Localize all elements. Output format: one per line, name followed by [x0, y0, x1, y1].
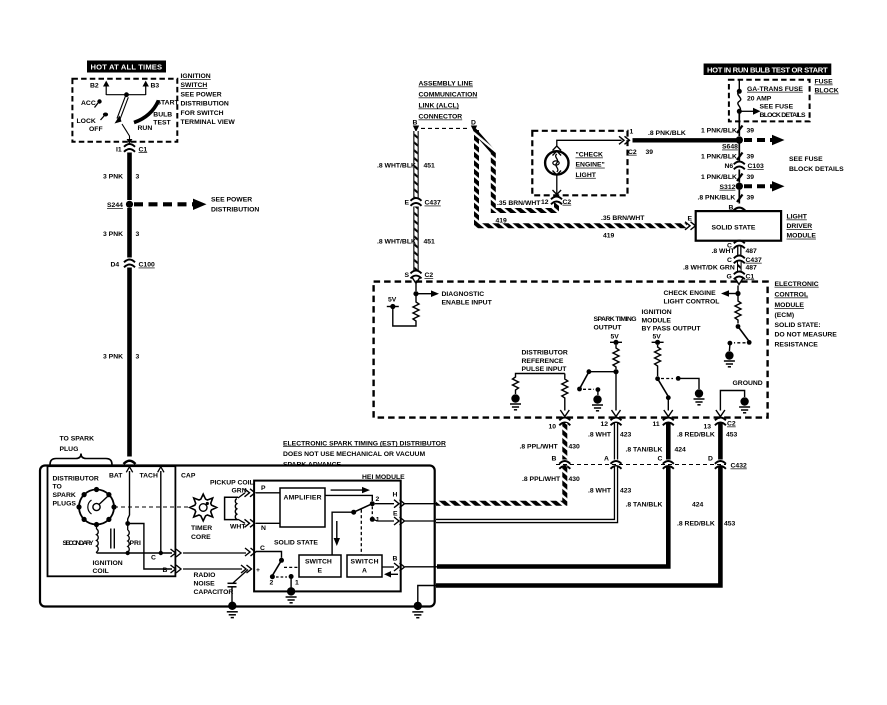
svg-text:39: 39 — [646, 149, 654, 156]
svg-text:B3: B3 — [151, 83, 160, 90]
svg-text:B: B — [413, 120, 418, 127]
ground distributor housing — [412, 602, 423, 618]
terminal arrow into ECM light control — [735, 279, 743, 285]
arrow annotation down — [334, 521, 340, 546]
svg-text:BLOCK: BLOCK — [815, 88, 839, 95]
node ignition feed — [124, 92, 129, 97]
svg-text:CAP: CAP — [181, 473, 196, 480]
wire .8 WHT 487 — [712, 247, 758, 257]
fuse GA-TRANS 20 AMP — [737, 81, 804, 114]
svg-text:.8 WHT: .8 WHT — [588, 487, 612, 494]
svg-text:C2: C2 — [727, 421, 736, 428]
svg-text:P: P — [261, 485, 266, 492]
terminal 5V bypass — [652, 333, 664, 345]
node spark timing junction — [613, 369, 618, 374]
electronic control module box — [374, 282, 768, 418]
svg-text:.8 PNK/BLK: .8 PNK/BLK — [698, 195, 736, 202]
svg-text:423: 423 — [620, 487, 632, 494]
light driver module box — [696, 211, 781, 241]
svg-text:S: S — [405, 272, 410, 279]
svg-text:12: 12 — [541, 199, 549, 206]
wire .8 PPL/WHT 430 upper — [520, 423, 581, 460]
ground light control switch — [724, 345, 735, 367]
svg-text:5V: 5V — [388, 297, 397, 304]
svg-text:.8 WHT: .8 WHT — [712, 248, 736, 255]
switch spark timing — [577, 369, 613, 392]
svg-text:C1: C1 — [139, 146, 148, 153]
switch bypass — [655, 376, 680, 400]
label 3 PNK 3 — [103, 354, 140, 361]
svg-text:NOISE: NOISE — [194, 581, 216, 588]
svg-text:PRI: PRI — [130, 540, 141, 547]
svg-text:ENGINE": ENGINE" — [576, 162, 605, 169]
svg-text:3 PNK: 3 PNK — [103, 174, 123, 181]
label SEE POWER DISTRIBUTION — [211, 196, 259, 213]
connector C100 terminal D4 — [111, 260, 155, 269]
label 3 PNK 3 — [103, 174, 140, 181]
svg-text:10: 10 — [549, 423, 557, 430]
connector C2 terminal 12 — [541, 197, 571, 206]
svg-text:BLOCK DETAILS: BLOCK DETAILS — [789, 166, 844, 173]
svg-text:487: 487 — [746, 248, 758, 255]
svg-text:3: 3 — [136, 174, 140, 181]
svg-text:TO SPARK: TO SPARK — [60, 436, 95, 443]
svg-text:S312: S312 — [720, 184, 736, 191]
svg-text:BY PASS OUTPUT: BY PASS OUTPUT — [642, 326, 702, 333]
label EST distributor heading — [283, 440, 446, 468]
label .8 WHT/BLK 451 — [377, 238, 435, 245]
terminal C of HEI — [245, 545, 282, 558]
svg-text:DISTRIBUTION: DISTRIBUTION — [181, 101, 229, 108]
svg-text:SPARK TIMING: SPARK TIMING — [594, 316, 637, 323]
svg-text:DISTRIBUTOR: DISTRIBUTOR — [522, 350, 568, 357]
connector C432 terminal C — [658, 456, 674, 469]
wire switch pivot to switch E box — [332, 512, 354, 555]
connector C432 terminal A — [604, 456, 622, 469]
HEI module box — [254, 481, 401, 592]
ground ECM internal — [720, 391, 750, 413]
connector C2 terminal 11 — [653, 418, 674, 429]
wire .8 WHT/DK GRN 487 — [683, 262, 757, 272]
svg-text:D: D — [708, 456, 713, 463]
svg-text:ELECTRONIC: ELECTRONIC — [775, 281, 819, 288]
svg-text:3 PNK: 3 PNK — [103, 354, 123, 361]
svg-text:.8 PNK/BLK: .8 PNK/BLK — [648, 130, 686, 137]
svg-text:.8 PPL/WHT: .8 PPL/WHT — [522, 476, 561, 483]
svg-text:PULSE INPUT: PULSE INPUT — [522, 366, 568, 373]
svg-text:39: 39 — [747, 174, 755, 181]
label .8 WHT/BLK 451 — [377, 162, 435, 169]
wire spark timing output to 12 — [612, 374, 621, 417]
svg-text:GA-TRANS FUSE: GA-TRANS FUSE — [747, 86, 803, 93]
svg-text:OFF: OFF — [89, 126, 103, 133]
wire .8 PNK/BLK 39 S312 to LDM — [698, 190, 755, 204]
switch HEI driver — [270, 558, 300, 587]
svg-text:G: G — [727, 273, 732, 280]
svg-text:A: A — [362, 568, 367, 575]
label TO SPARK PLUG — [60, 436, 95, 453]
svg-text:SEE FUSE: SEE FUSE — [789, 156, 823, 163]
resistor bypass — [655, 345, 661, 376]
svg-text:.8 RED/BLK: .8 RED/BLK — [677, 432, 715, 439]
ground spark timing switch — [592, 391, 603, 411]
svg-text:MODULE: MODULE — [787, 233, 817, 240]
banner HOT IN RUN BULB TEST OR START — [704, 64, 832, 76]
wire TACH down to coil negative — [160, 471, 162, 553]
svg-text:REFERENCE: REFERENCE — [522, 358, 564, 365]
svg-text:E: E — [393, 511, 398, 518]
label SEE FUSE BLOCK DETAILS right — [789, 156, 844, 173]
svg-text:SEE POWER: SEE POWER — [211, 196, 252, 203]
svg-text:SPARK: SPARK — [53, 492, 76, 499]
svg-text:DRIVER: DRIVER — [787, 223, 813, 230]
terminal arrow into ECM diagnostic input — [412, 278, 420, 284]
svg-text:424: 424 — [692, 502, 704, 509]
svg-text:S244: S244 — [107, 202, 123, 209]
svg-text:.8 TAN/BLK: .8 TAN/BLK — [626, 502, 663, 509]
terminal B — [382, 555, 437, 571]
svg-text:IGNITION: IGNITION — [642, 309, 672, 316]
svg-text:C1: C1 — [746, 273, 755, 280]
coil core — [111, 529, 115, 549]
svg-text:START: START — [157, 100, 180, 107]
svg-text:.8 RED/BLK: .8 RED/BLK — [677, 521, 715, 528]
connector C432 row line — [556, 464, 726, 466]
svg-text:419: 419 — [496, 217, 508, 224]
connector terminal B of LDM — [729, 204, 746, 211]
terminal E of LDM — [685, 215, 696, 230]
svg-text:.8 WHT/BLK: .8 WHT/BLK — [377, 162, 416, 169]
svg-text:SOLID STATE:: SOLID STATE: — [775, 322, 821, 329]
ignition switch LOCK contact — [77, 113, 109, 126]
svg-text:1 PNK/BLK: 1 PNK/BLK — [701, 153, 737, 160]
connector C2 terminal 10 — [549, 418, 571, 431]
svg-text:A: A — [604, 456, 609, 463]
arrow annotation left — [384, 571, 398, 577]
svg-text:TO: TO — [53, 484, 62, 491]
svg-text:I1: I1 — [116, 146, 122, 153]
svg-text:DOES NOT USE MECHANICAL OR VAC: DOES NOT USE MECHANICAL OR VACUUM — [283, 451, 425, 458]
ground bypass contact — [680, 378, 704, 404]
label ECM right column — [775, 281, 838, 349]
svg-text:487: 487 — [746, 264, 758, 271]
timer core — [190, 494, 217, 541]
connector C437 terminal E — [405, 198, 441, 207]
switch HEI output — [351, 496, 380, 523]
svg-text:SWITCH: SWITCH — [305, 559, 332, 566]
svg-text:.8 WHT/BLK: .8 WHT/BLK — [377, 238, 416, 245]
svg-text:IGNITION: IGNITION — [181, 73, 211, 80]
connector C2 terminal 13 — [704, 418, 736, 431]
label FUSE BLOCK — [815, 79, 839, 95]
wire 3 PNK ignition feed upper — [127, 153, 132, 201]
svg-text:SEE FUSE: SEE FUSE — [760, 103, 794, 110]
wire .8 WHT 423 lower to HEI E — [436, 467, 632, 522]
svg-text:C432: C432 — [731, 463, 747, 470]
wire 3 PNK ignition feed lower — [127, 268, 132, 457]
terminal B of ALCL — [413, 120, 420, 133]
svg-text:C: C — [658, 456, 663, 463]
terminal D of ALCL — [471, 120, 477, 133]
svg-text:39: 39 — [747, 153, 755, 160]
svg-text:SWITCH: SWITCH — [351, 559, 379, 566]
check engine light box — [532, 131, 627, 196]
connector C437 terminal C — [727, 256, 762, 264]
svg-text:1 PNK/BLK: 1 PNK/BLK — [701, 127, 737, 134]
svg-text:D4: D4 — [111, 262, 120, 269]
svg-text:LINK (ALCL): LINK (ALCL) — [419, 103, 459, 110]
wire .8 RED/BLK 453 upper — [677, 423, 738, 460]
terminal TACH — [140, 467, 165, 480]
switch A box — [347, 555, 382, 577]
svg-text:DIAGNOSTIC: DIAGNOSTIC — [442, 291, 485, 298]
svg-text:COIL: COIL — [93, 568, 109, 575]
svg-text:ASSEMBLY LINE: ASSEMBLY LINE — [419, 81, 474, 88]
wire coil negative bus — [97, 552, 173, 554]
svg-text:MODULE: MODULE — [642, 317, 672, 324]
svg-text:13: 13 — [704, 423, 712, 430]
svg-text:419: 419 — [603, 233, 615, 240]
svg-text:453: 453 — [726, 432, 738, 439]
svg-text:MODULE: MODULE — [775, 302, 805, 309]
svg-text:RADIO: RADIO — [194, 572, 216, 579]
wire B2-B3 bus — [106, 94, 146, 96]
svg-text:SOLID STATE: SOLID STATE — [274, 540, 318, 547]
svg-text:SECONDARY: SECONDARY — [63, 540, 94, 547]
wire .8 WHT/BLK 451 upper — [413, 131, 418, 199]
svg-text:430: 430 — [569, 443, 581, 450]
svg-text:E: E — [688, 215, 693, 222]
arrow see fuse block details — [739, 103, 806, 119]
resistor spark timing — [613, 345, 619, 369]
fuse block box — [729, 80, 810, 122]
node check engine light control junction — [735, 286, 740, 297]
svg-text:BAT: BAT — [109, 472, 123, 479]
svg-text:SOLID STATE: SOLID STATE — [712, 224, 756, 231]
terminal B+ of coil — [163, 565, 182, 574]
svg-text:ENABLE INPUT: ENABLE INPUT — [442, 300, 493, 307]
resistor diagnostic pull-up — [393, 296, 419, 326]
svg-text:LOCK: LOCK — [77, 118, 96, 125]
svg-text:HOT AT ALL TIMES: HOT AT ALL TIMES — [91, 63, 163, 72]
terminal H — [375, 492, 436, 508]
svg-text:.8 TAN/BLK: .8 TAN/BLK — [626, 447, 663, 454]
svg-text:2: 2 — [376, 496, 380, 503]
svg-text:DO NOT MEASURE: DO NOT MEASURE — [775, 332, 838, 339]
ground radio noise capacitor — [227, 602, 238, 618]
svg-text:3 PNK: 3 PNK — [103, 231, 123, 238]
svg-text:WHT: WHT — [230, 524, 246, 531]
wire dashed link B to D — [421, 127, 469, 129]
wire .8 TAN/BLK 424 lower to HEI B — [437, 467, 704, 567]
terminal 5V spark timing — [610, 333, 622, 345]
svg-text:DISTRIBUTOR: DISTRIBUTOR — [53, 475, 99, 482]
wire BAT to B+ terminal — [128, 524, 172, 570]
wire BAT feed down — [128, 471, 130, 522]
label .35 BRN/WHT 419 — [601, 215, 645, 240]
ignition switch ACC contact — [81, 99, 102, 107]
label IGNITION MODULE BY PASS OUTPUT — [642, 309, 702, 333]
wire .8 PPL/WHT 430 lower to HEI H — [436, 467, 580, 504]
ignition coil inner box — [48, 466, 176, 576]
svg-text:C: C — [151, 555, 156, 562]
svg-text:5V: 5V — [653, 333, 662, 340]
wire RED/BLK to distributor housing ground — [418, 586, 436, 604]
wire 1 PNK/BLK 39 C103 to S312 — [701, 170, 754, 183]
svg-text:DISTRIBUTION: DISTRIBUTION — [211, 207, 259, 214]
label LIGHT DRIVER MODULE — [787, 214, 817, 240]
wire BRN/WHT from D to light driver module — [477, 130, 688, 226]
connector C432 terminal D — [708, 456, 747, 470]
svg-text:1: 1 — [295, 580, 299, 587]
terminal + of HEI — [241, 565, 260, 574]
connector C1 terminal I1 — [116, 144, 147, 153]
svg-text:C103: C103 — [748, 163, 764, 170]
svg-text:C2: C2 — [425, 272, 434, 279]
wire .8 WHT/BLK 451 lower — [413, 207, 418, 271]
svg-text:COMMUNICATION: COMMUNICATION — [419, 92, 478, 99]
wire pickup to N — [238, 519, 280, 532]
terminal arrow to 13 — [716, 410, 725, 417]
svg-text:IGNITION: IGNITION — [93, 560, 123, 567]
svg-text:GROUND: GROUND — [733, 380, 763, 387]
svg-text:.35 BRN/WHT: .35 BRN/WHT — [601, 215, 645, 222]
svg-text:39: 39 — [747, 127, 755, 134]
svg-text:12: 12 — [601, 421, 609, 428]
svg-text:11: 11 — [653, 421, 660, 428]
wire dashed lever to switch A — [360, 510, 362, 556]
label BULB TEST — [153, 111, 172, 126]
svg-text:H: H — [393, 492, 398, 499]
svg-text:424: 424 — [675, 447, 687, 454]
svg-text:LIGHT: LIGHT — [576, 172, 597, 179]
brace spark plug leads — [50, 454, 112, 465]
svg-text:.8 WHT: .8 WHT — [588, 432, 612, 439]
svg-text:N6: N6 — [725, 163, 734, 170]
svg-text:C2: C2 — [628, 149, 637, 156]
svg-text:PLUG: PLUG — [60, 446, 79, 453]
wire dashed arrow from S312 — [744, 181, 785, 191]
wire dashed arrow see power distribution — [134, 199, 207, 210]
label DISTRIBUTOR REFERENCE PULSE INPUT — [522, 350, 568, 374]
svg-text:.35 BRN/WHT: .35 BRN/WHT — [497, 200, 541, 207]
wire dashed cap to timer core — [114, 506, 190, 508]
capacitor radio noise — [194, 570, 249, 603]
ignition switch terminal B2 — [90, 81, 109, 95]
ignition switch terminal B3 — [143, 81, 160, 95]
label IGNITION COIL — [93, 560, 123, 575]
distributor cap — [76, 487, 116, 527]
svg-text:FUSE: FUSE — [815, 79, 834, 86]
svg-text:AMPLIFIER: AMPLIFIER — [284, 495, 322, 502]
svg-text:430: 430 — [569, 476, 581, 483]
distributor outer box — [40, 466, 435, 607]
connector C2 terminal S — [405, 271, 434, 280]
svg-text:B: B — [163, 567, 168, 574]
svg-text:3: 3 — [136, 231, 140, 238]
ground distributor reference — [510, 394, 521, 410]
svg-text:5V: 5V — [611, 333, 620, 340]
svg-text:RESISTANCE: RESISTANCE — [775, 341, 819, 348]
svg-text:BLOCK DETAILS: BLOCK DETAILS — [760, 112, 806, 119]
ground HEI internal — [286, 578, 297, 603]
svg-text:PICKUP COIL: PICKUP COIL — [210, 479, 254, 486]
svg-text:.8 PPL/WHT: .8 PPL/WHT — [520, 443, 559, 450]
svg-text:TERMINAL VIEW: TERMINAL VIEW — [181, 119, 236, 126]
switch light control — [728, 324, 752, 345]
svg-text:423: 423 — [620, 432, 632, 439]
svg-text:TEST: TEST — [153, 119, 171, 126]
terminal E — [375, 511, 437, 525]
node diagnostic input junction — [413, 284, 418, 296]
svg-text:ACC: ACC — [81, 100, 96, 107]
svg-text:20 AMP: 20 AMP — [747, 95, 772, 102]
svg-text:CHECK ENGINE: CHECK ENGINE — [664, 290, 717, 297]
terminal BAT — [109, 467, 133, 480]
ignition switch box — [72, 79, 177, 142]
pickup coil — [210, 479, 254, 530]
svg-text:+: + — [256, 567, 260, 574]
label DISTRIBUTOR TO SPARK PLUGS — [53, 475, 99, 507]
resistor light control — [735, 296, 741, 324]
connector C103 terminal N6 — [725, 162, 764, 171]
svg-text:BULB: BULB — [153, 111, 172, 118]
svg-text:S648: S648 — [722, 144, 738, 151]
svg-text:TIMER: TIMER — [191, 525, 212, 532]
lamp check engine light — [545, 146, 568, 175]
wire .8 RED/BLK 453 lower to distributor ground — [436, 467, 736, 586]
wire switch output — [122, 124, 132, 144]
winding coil primary — [128, 524, 141, 554]
terminal C- of coil — [151, 549, 181, 562]
svg-text:LIGHT CONTROL: LIGHT CONTROL — [664, 299, 720, 306]
svg-text:CAPACITOR: CAPACITOR — [194, 589, 234, 596]
wire coil B+ to HEI — [183, 568, 242, 570]
connector C1 terminal G — [727, 272, 755, 281]
svg-text:FOR SWITCH: FOR SWITCH — [181, 110, 224, 117]
svg-text:RUN: RUN — [138, 125, 153, 132]
splice S648 — [722, 136, 743, 150]
node tach junction — [159, 551, 163, 555]
wire bypass output to 11 — [664, 399, 673, 417]
svg-text:453: 453 — [724, 521, 736, 528]
wire coil C- to HEI — [183, 552, 246, 554]
wire dashed arrow from S648 — [744, 135, 785, 145]
wire .8 PNK/BLK 39 to splice — [633, 138, 738, 142]
svg-text:SWITCH: SWITCH — [181, 82, 208, 89]
svg-text:B: B — [393, 555, 398, 562]
label 3 PNK 3 — [103, 231, 140, 238]
terminal arrow to 10 — [560, 410, 569, 417]
terminal 5V diagnostic — [387, 297, 399, 310]
svg-text:HOT IN RUN BULB TEST OR START: HOT IN RUN BULB TEST OR START — [707, 65, 828, 74]
svg-text:SEE POWER: SEE POWER — [181, 91, 222, 98]
banner HOT AT ALL TIMES — [87, 61, 166, 73]
svg-text:"CHECK: "CHECK — [576, 152, 603, 159]
svg-text:ELECTRONIC SPARK TIMING (EST): ELECTRONIC SPARK TIMING (EST) DISTRIBUTO… — [283, 440, 446, 447]
terminal 1 connector C2 of CEL — [619, 129, 653, 156]
svg-text:451: 451 — [424, 162, 436, 169]
splice S244 — [107, 201, 133, 210]
svg-text:PLUGS: PLUGS — [53, 501, 77, 508]
switch E box — [299, 555, 341, 577]
wire .8 WHT 423 upper — [588, 423, 632, 460]
resistor distributor reference right leg — [562, 374, 568, 411]
svg-text:C100: C100 — [139, 262, 155, 269]
svg-text:39: 39 — [747, 195, 755, 202]
wire BRN/WHT from D to CEL — [474, 130, 557, 211]
svg-text:C437: C437 — [425, 200, 441, 207]
